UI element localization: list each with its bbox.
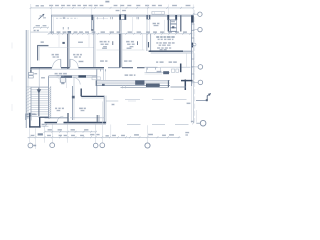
text: wing room label right bbox=[79, 107, 86, 111]
text: stair label bbox=[32, 113, 36, 115]
wall: interior vertical x146.5 light bbox=[143, 34, 147, 51]
grid bubble C (200.5,67) bbox=[193, 65, 203, 70]
line: inner left face x30.3 bbox=[30, 30, 32, 68]
wall: interior vertical x150.5 bbox=[150, 34, 152, 52]
wall: corridor south y76-77.5 bbox=[49, 75, 97, 78]
ramp small blob bbox=[102, 84, 105, 86]
stair boundary lines bbox=[26, 87, 48, 116]
dimension texts above row A bbox=[48, 129, 89, 131]
fixture marks in stair core bbox=[168, 21, 177, 32]
lines y72-74 mid right bbox=[145, 73, 171, 74]
ramp hatch ticks bbox=[99, 81, 168, 86]
east wall window ticks bbox=[191, 24, 195, 82]
dimension line: top overall string y=7.7 bbox=[30, 7, 195, 9]
extension verticals to bottom dims bbox=[30, 102, 148, 150]
fixtures near west wall y72-78 bbox=[29, 72, 45, 78]
text: small label near duct bbox=[41, 41, 44, 43]
door swing arc left (x52-61) bbox=[53, 59, 61, 67]
wall: east facade x191.5-193.3 bbox=[191, 15, 194, 123]
stair stringer and arrow bbox=[37, 88, 41, 117]
ramp dark bar lower bbox=[146, 84, 159, 87]
door swing arc wing south bbox=[57, 116, 63, 122]
ramp band outline bbox=[96, 80, 170, 86]
text: room label (x126,y41) bbox=[126, 41, 135, 48]
window jamb ticks below north wall bbox=[63, 17, 139, 19]
partition x132.5 faint bbox=[132, 17, 134, 34]
text: small marks left of vestibule bbox=[27, 114, 29, 119]
grid bubble 4 (102.3,145.3) bbox=[100, 143, 105, 148]
wall: hatched west wall of wing x48.5-51 bbox=[49, 76, 51, 119]
pier: north wall pier rect x119.5-126 bbox=[119, 15, 126, 20]
wall: wing inner south y117.8 bbox=[39, 116, 104, 118]
toilet stall rects x170-177 bbox=[170, 20, 176, 31]
grid bubble 5 (147.5,145.5) bbox=[145, 143, 150, 148]
pier: wing south pier x68 bbox=[67, 113, 69, 123]
text: local technique block bbox=[156, 36, 175, 50]
stair treads x31-48 y87-116 bbox=[31, 88, 48, 114]
door swing arc corridor south bbox=[73, 78, 80, 85]
text: COULOIR label bbox=[55, 73, 67, 77]
line: faint room bottom y47.3 left rooms bbox=[49, 34, 94, 48]
dimension texts above row B bbox=[31, 133, 175, 136]
ticks near vestibule right bbox=[42, 124, 49, 127]
wall: interior vertical x68 dark bbox=[68, 34, 70, 69]
wall: wing east vertical pair x104-106 bbox=[104, 96, 106, 124]
wall: x39 vertical below corridor bbox=[38, 69, 40, 89]
grid bubble 2 (52.2,145.2) bbox=[50, 143, 55, 148]
wall: dark horizontal y51 x150-192 bbox=[149, 51, 193, 53]
stair west wall hatch bbox=[26, 88, 30, 114]
dashed terrace row y99.6 bbox=[125, 99, 187, 101]
dashed terrace row y124.6 bbox=[127, 124, 189, 126]
skylight rect above wall x152-164 bbox=[152, 12, 165, 15]
grid bubble E (203,123.2) bbox=[191, 120, 206, 126]
line y101 from wing bbox=[106, 101, 136, 105]
dimension line bottom B y137.3 bbox=[28, 136, 181, 138]
wall: ramp west edge / wing upper east x96.8 bbox=[92, 69, 100, 96]
dimension texts above y31.5 row bbox=[50, 31, 188, 33]
wall stub top-left x51.6 bbox=[52, 15, 54, 34]
wall: vertical pair below pier x147 bbox=[147, 19, 150, 34]
wall: vertical dark x180.7 y63-72 bbox=[180, 64, 182, 73]
partition faint x66.5 wing bbox=[66, 78, 68, 88]
pier: north wall pier at x91-93 descending to y30 bbox=[91, 15, 93, 31]
wall: corridor north inner line bbox=[31, 68, 105, 70]
wall: dark vertical x180.8 (toilet block) bbox=[180, 16, 182, 32]
wall: north facade double line bbox=[51, 15, 194, 17]
text: 1.50 label bbox=[78, 41, 83, 43]
door swing arc wing left bbox=[56, 78, 61, 83]
text: N 1.05 label mid bbox=[125, 74, 136, 76]
north arrow / leader top-left bbox=[39, 14, 47, 19]
door hinge dark blob (63,42) bbox=[62, 42, 64, 44]
dark block (163-169,y71-74) bbox=[163, 71, 169, 74]
ramp band bottom edge and east end bbox=[121, 80, 169, 88]
wall: west facade double line x26-28 bbox=[26, 30, 28, 128]
vestibule inner lines bbox=[26, 113, 37, 121]
text: wing room label left bbox=[55, 107, 64, 111]
text: room label top (x153,y23) bbox=[153, 23, 160, 27]
wall: thick vertical below pier x168 (stair core) bbox=[168, 20, 170, 32]
text: room labels y61 row bbox=[100, 60, 177, 63]
small ticks y28 x63/x68 bbox=[63, 27, 68, 29]
extension lines from top dimension to wall bbox=[31, 4, 193, 30]
ramp dark block right bbox=[135, 80, 144, 84]
dimension sub-line top-left y27.5 bbox=[33, 25, 49, 29]
dark dash x148.5 and east dark chunk bbox=[149, 42, 197, 47]
faint text row y10 top middle bbox=[116, 10, 127, 12]
grid bubble 3 (95.7,145.5) bbox=[93, 143, 98, 148]
grid bubble D (200.5,82.5) bbox=[193, 80, 203, 85]
dark N ticks in mid rooms bbox=[113, 41, 138, 45]
faint margin dashes left bbox=[11, 43, 13, 112]
ticks below corridor wall bbox=[101, 67, 156, 71]
wall: horizontal y32 x30-48 bbox=[31, 30, 49, 32]
wall: wing L dark (x81,y90-97)+(81-104,y96.3) bbox=[81, 89, 104, 99]
wall: corridor north dark segments y67.6 bbox=[31, 66, 191, 69]
tiny text far top-left bbox=[36, 5, 45, 7]
kitchen fixture rects mid-right bbox=[147, 53, 187, 73]
grid line right dashed vertical bbox=[195, 10, 197, 123]
duct L-wall at (37-48,45.5) bbox=[37, 45, 48, 60]
text: small right labels bbox=[185, 102, 190, 135]
text: room label left (x52,y54) bbox=[52, 54, 60, 58]
wall: wing centre vertical x72.7 bbox=[72, 77, 75, 120]
door swing arc right (x70-78) bbox=[70, 59, 78, 67]
dimension line: interior string y=33.7 bbox=[48, 33, 193, 35]
window jambs x97/x103 bbox=[96, 17, 108, 19]
small fixture rects below corridor bbox=[60, 78, 65, 84]
wall: vertical pair below pier x120 bbox=[120, 20, 122, 34]
hatch wall x97-99 lower bbox=[97, 115, 99, 123]
dimension line bottom A y131.8 bbox=[44, 131, 97, 133]
line: faint room bottom y50 mid rooms bbox=[97, 47, 145, 50]
text: room label (x100,y41) bbox=[100, 41, 110, 48]
grid bubble 1 (30.4,145.5) bbox=[28, 143, 36, 148]
partition x164.5 faint bbox=[164, 20, 166, 34]
dark corner below corridor west bbox=[30, 68, 32, 73]
text: 1.27 label bbox=[157, 71, 162, 73]
wall: south-east corner dark bbox=[171, 80, 193, 91]
wall: interior vertical x120 very dark bbox=[120, 34, 122, 68]
text: room label (x73,y54) bbox=[73, 54, 84, 63]
wall: east lower light segment bbox=[191, 86, 193, 123]
dimension text row above top line bbox=[49, 1, 191, 7]
dashed service line y18 bbox=[56, 17, 78, 19]
grid bubble A (200,14.3) bbox=[193, 12, 202, 16]
wall: wing south dark y123 bbox=[45, 123, 107, 125]
pier: north wall pier x146-150 bbox=[146, 15, 150, 19]
entry leader line and hook arrow bbox=[196, 93, 211, 101]
pier: north wall big pier x167-177 with dark jambs bbox=[167, 15, 177, 20]
grid bubble B (200,29.6) bbox=[193, 27, 202, 31]
wall: vestibule U dark bbox=[29, 113, 40, 128]
wall: interior vertical x94.5 bbox=[94, 17, 95, 68]
wall: vertical x103.7 y69-80 bbox=[104, 69, 106, 80]
